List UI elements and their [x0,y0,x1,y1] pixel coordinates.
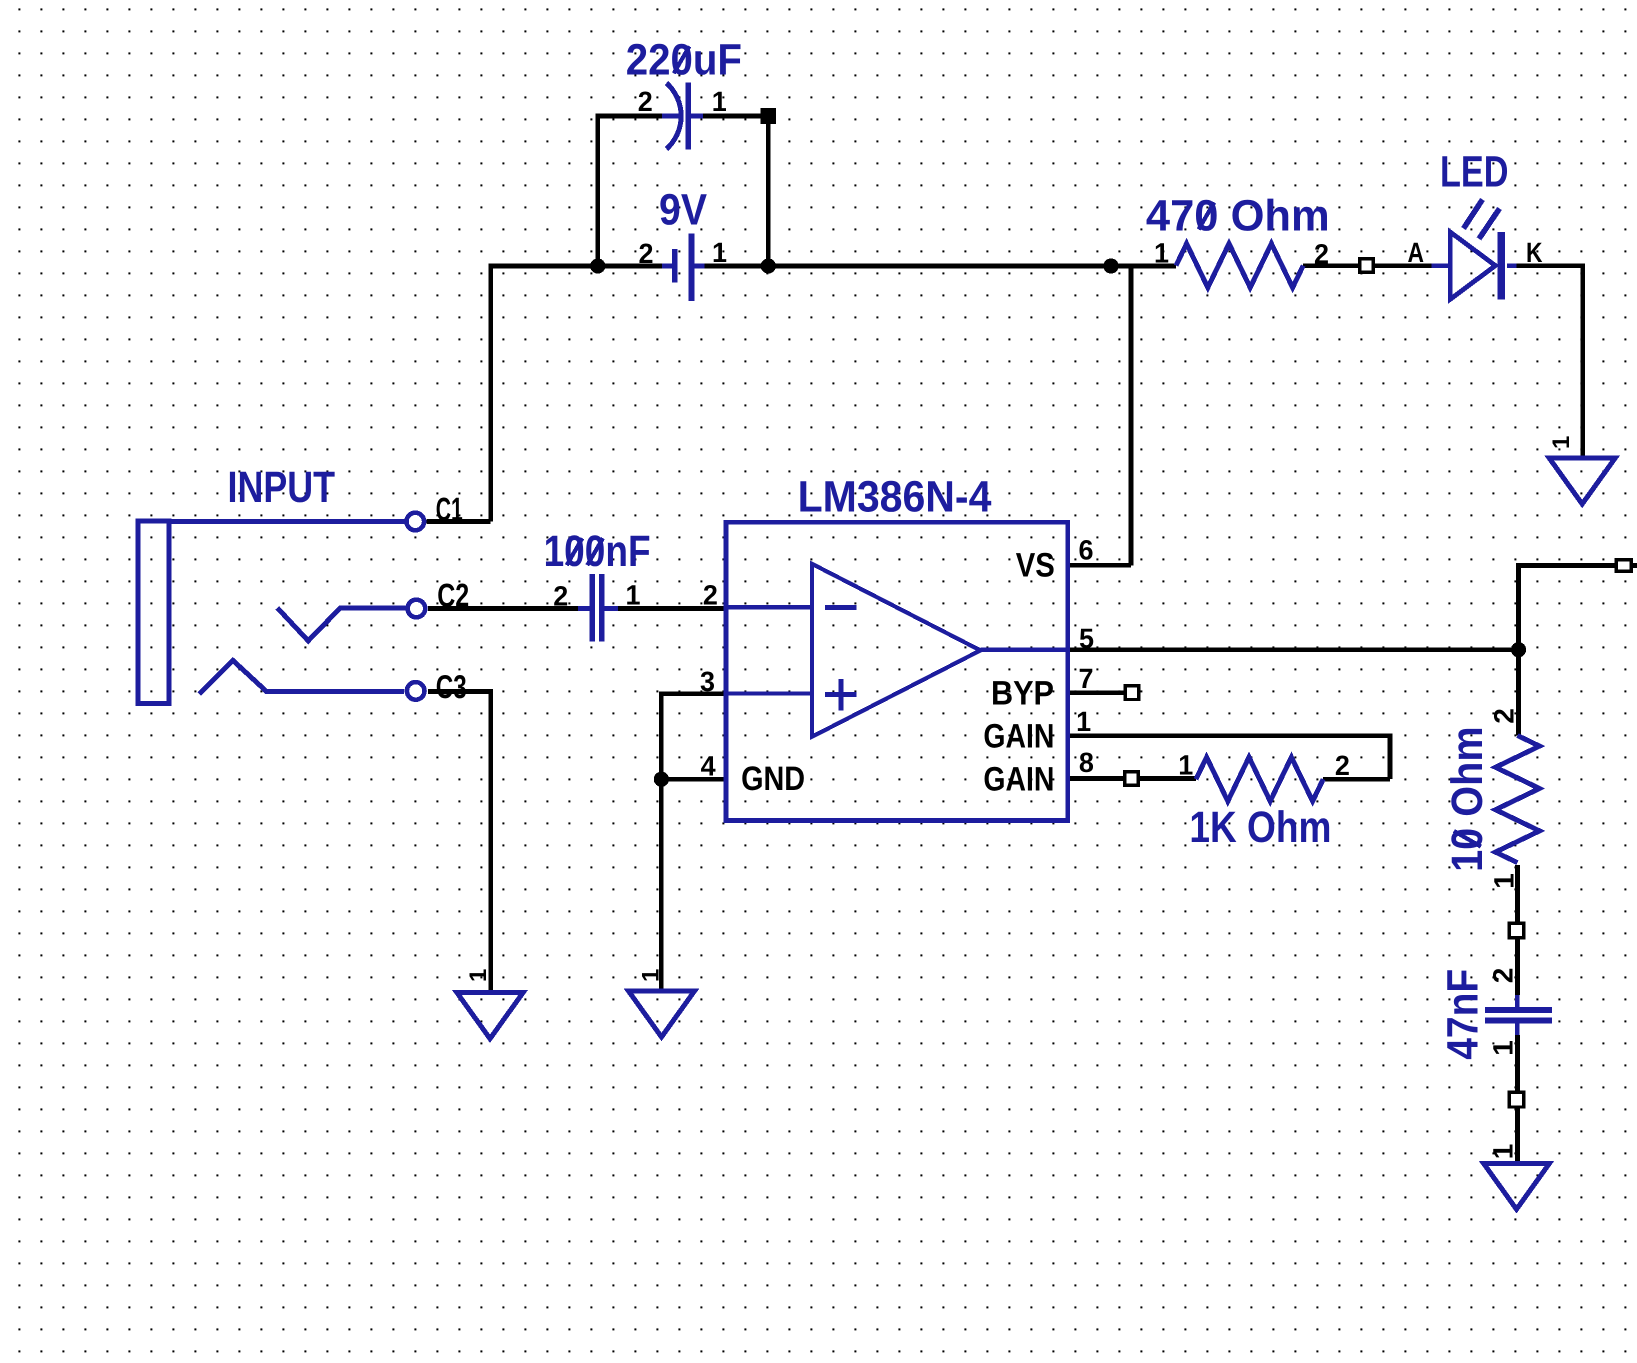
LED - light arrow 2 [1479,209,1500,239]
svg-text:1: 1 [712,237,727,268]
LED - cathode stub pin K [1507,263,1517,268]
op-amp U1 - non-inverting input pin 3 line [726,691,812,695]
connector square - 470 Ohm to LED wire [1360,259,1374,273]
svg-text:LM386N-4: LM386N-4 [798,473,992,522]
op-amp U1 - triangle [812,564,981,737]
resistor 470 Ohm - zigzag [1176,244,1303,288]
connector INPUT jack - body rectangle [138,521,169,703]
LED - triangle [1450,232,1495,299]
svg-text:C1: C1 [436,491,463,528]
svg-text:C3: C3 [436,668,467,705]
battery 9V - left stub and short negative plate pin 2 [662,264,672,269]
wire - VS riser up to power rail [1129,264,1134,566]
LED - cathode bar [1498,232,1506,300]
op-amp U1 - output pin 5 line [980,648,1067,652]
wire - op-amp pin 1 GAIN horizontal segment [1068,733,1390,738]
ground - LED cathode [1549,458,1615,504]
wire - C1 pin to riser [427,519,491,524]
capacitor 100nF - right plate and stub pin 1 [599,574,604,641]
connector INPUT jack - C3 pin circle [407,682,425,700]
svg-text:470 Ohm: 470 Ohm [1146,191,1330,240]
svg-text:2: 2 [1335,750,1350,781]
svg-text:GND: GND [741,760,805,798]
pin number 1 - 10 Ohm (rotated) [1489,873,1520,889]
svg-text:1K Ohm: 1K Ohm [1189,803,1331,852]
svg-text:6: 6 [1079,535,1094,566]
wire - C3 pin horizontal segment [428,689,491,694]
svg-text:10 Ohm: 10 Ohm [1443,726,1492,872]
pin number 2 - 10 Ohm (rotated) [1489,708,1520,724]
connector INPUT jack - C2 pin circle [408,600,426,618]
svg-text:VS: VS [1016,547,1055,585]
wire - 220uF top-left segment [596,114,663,119]
svg-text:1: 1 [1178,749,1193,780]
wire - pin 1 GAIN bottom segment to 1K pin 2 [1323,777,1390,782]
svg-text:47nF: 47nF [1438,969,1487,1060]
svg-text:1: 1 [626,579,641,610]
pin number 1 - op-amp ground (rotated) [637,969,664,982]
capacitor 220uF - straight plate and right stub pin 1 [686,83,691,150]
wire - op-amp pin 8 GAIN to 1K pin 1 [1068,776,1196,781]
label - slashed zeros in 100nF [567,538,583,565]
svg-text:7: 7 [1079,663,1094,694]
svg-text:2: 2 [553,581,568,612]
wire - 220uF top-right segment [703,114,768,119]
LED - light arrow 1 [1464,200,1483,229]
wire - output riser up [1516,566,1521,653]
pin number 1 - LED ground (rotated) [1548,436,1575,449]
wire - op-amp pin 4 (GND) to riser [661,777,726,782]
label - 10 Ohm value (rotated) [1443,726,1492,872]
wire - 220uF loop left riser [595,114,600,266]
svg-text:2: 2 [1489,708,1520,724]
op-amp U1 - inverting input pin 2 line [726,605,812,609]
wire - 47nF pin 1 down to ground [1515,1035,1520,1164]
wire - junction down to 10 Ohm pin 2 [1516,650,1521,736]
wire - 10 Ohm pin 1 down to 47nF pin 2 [1515,865,1520,995]
svg-text:9V: 9V [659,186,708,235]
capacitor 47nF - bottom plate and stub pin 1 [1485,1018,1552,1024]
op-amp U1 - plus symbol [825,692,857,697]
svg-text:2: 2 [1314,239,1329,270]
svg-text:C2: C2 [437,577,469,614]
svg-text:1: 1 [1076,706,1091,737]
junction - battery pin 1 node [761,258,776,273]
wire - LED cathode riser down to ground [1580,263,1585,457]
svg-text:INPUT: INPUT [228,463,336,512]
svg-text:2: 2 [638,86,653,117]
op-amp U1 LM386N-4 - body box [726,522,1068,820]
svg-text:5: 5 [1079,623,1094,654]
svg-text:1: 1 [1548,436,1575,449]
svg-text:1: 1 [1154,238,1169,269]
wire - power rail left segment (C1 corner to battery pin 2) [488,264,662,269]
wire - riser from power rail down to INPUT C1 [488,264,493,522]
connector square - output to sheet edge [1616,560,1631,572]
junction - battery pin 2 node [590,258,605,273]
junction - power rail at VS riser [1103,258,1118,273]
label - slashed zero in 470 Ohm [1199,202,1215,229]
svg-text:1: 1 [465,969,492,982]
ground - op-amp GND [629,991,695,1037]
junction - 220uF pin 1 / riser (square) [761,108,777,124]
pin number 1 - bottom connector (rotated) [1487,1144,1518,1160]
svg-text:4: 4 [701,750,716,781]
svg-text:GAIN: GAIN [983,761,1054,799]
wire - output top segment to connector square [1516,563,1616,568]
svg-text:2: 2 [639,238,654,269]
capacitor 100nF - left stub and plate pin 2 [578,606,590,611]
wire - 470 Ohm pin 2 to LED anode [1303,263,1431,268]
capacitor 220uF (polarized) - left stub and curved plate pin 2 [662,114,679,119]
wire - LED cathode horizontal segment [1517,263,1583,268]
connector INPUT jack - C3 switch contact [199,660,404,694]
wire - C2 pin to 100nF pin 2 [428,606,578,611]
wire - op-amp pin 5 output to junction [1068,647,1519,652]
svg-text:BYP: BYP [991,675,1054,713]
svg-text:1: 1 [1487,1144,1518,1160]
resistor 10 Ohm - vertical zigzag [1496,736,1540,863]
connector INPUT jack - C2 switch contact [277,608,405,641]
label - slashed zero in 10 Ohm (rotated) [1454,831,1481,847]
connector square - op-amp pin 8 wire [1125,772,1139,786]
resistor 1K Ohm - zigzag [1196,757,1323,801]
LED - anode stub pin A [1431,263,1447,268]
svg-text:A: A [1408,237,1425,268]
wire - op-amp pin 6 VS horizontal segment [1068,563,1131,568]
connector INPUT jack - C1 pin circle [407,513,425,531]
wire - power rail right segment (battery pin 1 to 470 Ohm pin 1) [705,264,1176,269]
wire - op-amp pin 7 BYP stub [1068,690,1125,695]
wire - pin 1 GAIN riser down [1388,733,1393,779]
pin number 2 - 47nF (rotated) [1487,968,1518,984]
connector square - between 10 Ohm and 47nF [1509,923,1524,938]
label - 47nF value (rotated) [1438,969,1487,1060]
battery 9V - long positive plate and right stub pin 1 [689,233,695,301]
svg-text:1: 1 [712,86,727,117]
svg-text:1: 1 [1487,1040,1518,1056]
label - slashed zero in 220uF [674,46,690,73]
connector square - op-amp pin 7 BYP end [1125,686,1139,700]
pin number 1 - C3 ground (rotated) [465,969,492,982]
wire - 100nF pin 1 to op-amp pin 2 [618,606,726,611]
connector square - between 47nF and ground [1509,1092,1524,1107]
svg-text:1: 1 [637,969,664,982]
svg-text:8: 8 [1079,747,1094,778]
wire - C3 riser down to ground [488,689,493,993]
pin number 1 - 47nF (rotated) [1487,1040,1518,1056]
ground - 47nF [1484,1163,1550,1209]
wire - pin 3 riser down to ground [659,691,664,991]
svg-text:K: K [1526,237,1543,268]
wire - 220uF loop right riser [766,116,771,266]
capacitor 47nF - top stub and plate pin 2 [1515,995,1520,1007]
svg-text:2: 2 [703,580,718,611]
svg-text:1: 1 [1489,873,1520,889]
wire - output stub to sheet edge [1632,563,1637,568]
svg-text:3: 3 [700,666,715,697]
junction - pin3/pin4 ground riser [654,772,669,787]
junction - output node at pin 5 [1511,642,1526,657]
connector INPUT jack - tip contact line to C1 [169,519,404,524]
svg-text:LED: LED [1440,148,1509,197]
ground - INPUT C3 [457,993,523,1039]
op-amp U1 - minus symbol [825,605,857,610]
svg-text:2: 2 [1487,968,1518,984]
svg-text:GAIN: GAIN [983,718,1054,756]
wire - op-amp pin 3 horizontal segment [661,691,726,696]
